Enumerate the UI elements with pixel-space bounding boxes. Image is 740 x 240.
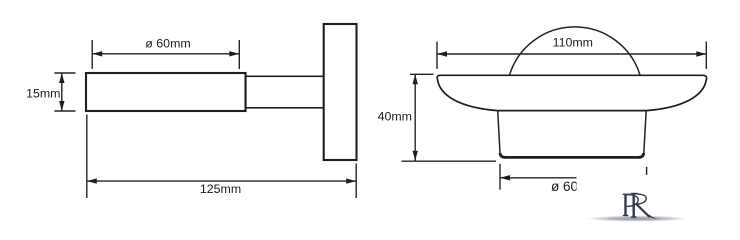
logo letter P stem bbox=[624, 194, 626, 215]
dimension 110mm arrow right bbox=[696, 51, 706, 56]
dimension ø 60 arrow left bbox=[500, 175, 510, 180]
logo letter R stem bbox=[633, 194, 635, 218]
dimension ø 60 extension line right (clipped) bbox=[646, 167, 648, 190]
dimension ø 60mm line bbox=[92, 53, 239, 55]
dimension ø 60mm extension line left bbox=[91, 40, 93, 69]
cup right side (right view) bbox=[644, 111, 646, 153]
dimension 125mm arrow left bbox=[87, 178, 97, 183]
svg-text:125mm: 125mm bbox=[200, 182, 241, 196]
dimension 15mm arrow top bbox=[59, 73, 64, 83]
dimension 40mm extension tick bottom bbox=[402, 160, 497, 162]
white overlay clipping bottom-right drawing bbox=[577, 175, 740, 238]
logo letter R leg bbox=[637, 204, 650, 217]
dimension 125mm arrow right bbox=[346, 178, 356, 183]
dimension 110mm arrow left bbox=[437, 51, 447, 56]
dimension ø 60 extension line left bbox=[499, 164, 501, 190]
logo letter R bottom serif bbox=[631, 216, 637, 218]
dimension ø 60mm arrow left bbox=[92, 51, 102, 56]
logo letter P bottom serif bbox=[623, 215, 628, 217]
logo letter R foot bbox=[647, 215, 657, 219]
dimension ø 60mm extension line right bbox=[238, 40, 240, 69]
logo letter P bowl bbox=[627, 195, 639, 207]
dimension 110mm line bbox=[437, 53, 706, 55]
dimension 40mm arrow top bbox=[413, 74, 418, 84]
svg-text:110mm: 110mm bbox=[553, 36, 593, 50]
dimension 40mm extension tick top bbox=[410, 73, 434, 75]
dimension 110mm extension line right bbox=[705, 42, 707, 69]
cup bottom (right view) bbox=[500, 153, 644, 157]
dimension 15mm extension tick bottom bbox=[54, 110, 75, 112]
dimension 110mm extension line left bbox=[436, 42, 438, 69]
dimension 15mm line bbox=[61, 73, 63, 111]
dish body (right view) bbox=[437, 75, 706, 110]
dimension 125mm extension line left bbox=[86, 115, 88, 199]
dimension ø 60mm arrow right bbox=[229, 51, 239, 56]
cup left side (right view) bbox=[498, 111, 500, 153]
svg-text:15mm: 15mm bbox=[26, 86, 60, 100]
dimension 40mm arrow bottom bbox=[413, 151, 418, 161]
dimension 125mm extension line right bbox=[355, 164, 357, 199]
mounting arm (left view) bbox=[246, 76, 324, 108]
dimension ø 60 line (clipped) bbox=[500, 177, 647, 179]
dimension 40mm line bbox=[414, 74, 416, 161]
svg-text:ø 60mm: ø 60mm bbox=[145, 37, 190, 51]
logo letter R bowl bbox=[635, 194, 646, 204]
dimension 15mm extension tick top bbox=[54, 72, 75, 74]
logo letter P top serif bbox=[623, 193, 630, 195]
tube body (left view) bbox=[86, 73, 246, 111]
svg-text:40mm: 40mm bbox=[378, 110, 412, 124]
dimension 15mm arrow bottom bbox=[59, 101, 64, 111]
logo letter R top serif bbox=[631, 193, 638, 195]
dimension 125mm line bbox=[87, 180, 356, 182]
wall plate (left view) bbox=[324, 24, 357, 160]
dome arc (right view) bbox=[510, 27, 641, 75]
